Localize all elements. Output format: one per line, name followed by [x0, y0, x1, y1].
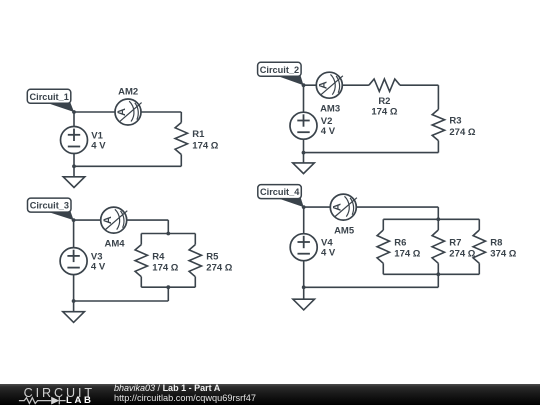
ammeter AM2 [115, 87, 142, 126]
resistor R1 174 ohm [175, 123, 219, 155]
wire down to parallel top bus circuit 3 [167, 220, 169, 233]
wire R7 bottom lead [437, 263, 439, 274]
node circuit 1 top junction [72, 110, 76, 114]
svg-text:LAB: LAB [66, 395, 94, 405]
svg-text:AM4: AM4 [104, 238, 125, 249]
wire bottom rail circuit 2 [304, 152, 439, 154]
svg-text:AM5: AM5 [334, 225, 355, 236]
node circuit 2 top junction [302, 83, 306, 87]
voltage source V2 4V [290, 112, 336, 139]
wire R7 top lead [437, 219, 439, 230]
voltage source V4 4V [290, 234, 336, 261]
svg-text:374 Ω: 374 Ω [490, 248, 516, 259]
wire V2 branch circuit 2 [303, 85, 305, 152]
wire bottom rail circuit 3 [74, 300, 169, 302]
wire R1 top lead [180, 112, 182, 123]
resistor R7 274 ohm [432, 230, 476, 263]
wire V3 branch circuit 3 [73, 220, 75, 301]
wire R4 bottom lead [140, 277, 142, 288]
svg-text:Circuit_2: Circuit_2 [260, 65, 299, 75]
node circuit 2 bottom junction [302, 151, 306, 155]
wire R8 bottom lead [478, 263, 480, 274]
wire ground stem circuit 4 [303, 287, 305, 299]
wire R6 bottom lead [382, 263, 384, 274]
svg-text:R5: R5 [206, 251, 219, 262]
resistor R4 174 ohm [135, 245, 179, 277]
wire top rail circuit 3 (node through AM4) [74, 219, 169, 221]
svg-text:274 Ω: 274 Ω [449, 127, 475, 138]
wire top rail circuit 4 (node through AM5) [304, 206, 439, 208]
ground circuit 4 [293, 299, 315, 310]
wire ground stem circuit 3 [73, 301, 75, 312]
resistor R8 374 ohm [473, 230, 517, 263]
node label Circuit_2 [258, 62, 304, 85]
CircuitLab logo [18, 384, 118, 405]
svg-text:R2: R2 [378, 96, 390, 107]
svg-text:274 Ω: 274 Ω [206, 262, 232, 273]
svg-text:R8: R8 [490, 237, 502, 248]
svg-text:A: A [102, 216, 114, 224]
svg-text:174 Ω: 174 Ω [371, 107, 397, 118]
wire down to parallel top bus circuit 4 [437, 207, 439, 219]
svg-text:Circuit_3: Circuit_3 [30, 201, 69, 211]
wire R3 top lead [437, 85, 439, 109]
wire parallel top bus circuit 3 [141, 233, 195, 235]
svg-text:A: A [116, 108, 128, 116]
ground circuit 3 [63, 312, 85, 323]
voltage source V3 4V [60, 248, 106, 275]
wire R5 bottom lead [194, 277, 196, 288]
svg-text:174 Ω: 174 Ω [152, 262, 178, 273]
svg-text:AM3: AM3 [320, 104, 340, 115]
ground circuit 1 [63, 177, 85, 188]
wire R4 top lead [140, 234, 142, 245]
resistor R5 274 ohm [189, 245, 233, 277]
wire R2 to corner circuit 2 [400, 84, 438, 86]
footer caption text [114, 383, 220, 393]
node label Circuit_4 [258, 185, 304, 208]
svg-text:AM2: AM2 [118, 87, 138, 98]
svg-text:Circuit_1: Circuit_1 [30, 92, 69, 102]
wire R6 top lead [382, 219, 384, 230]
resistor R2 174 ohm [369, 79, 400, 118]
wire top rail circuit 2 (node to R2) [304, 84, 369, 86]
svg-text:4 V: 4 V [91, 140, 106, 151]
logo diode triangle [51, 397, 59, 405]
wire bottom rail circuit 4 [304, 286, 439, 288]
node circuit 3 parallel bottom junction [166, 285, 170, 289]
svg-text:R3: R3 [449, 116, 461, 127]
ammeter AM3 [316, 72, 343, 114]
ammeter AM4 [101, 207, 128, 249]
wire down from bottom bus circuit 3 [167, 287, 169, 301]
svg-text:4 V: 4 V [91, 261, 106, 272]
svg-text:R4: R4 [152, 251, 165, 262]
resistor R3 274 ohm [432, 109, 476, 140]
wire ground stem circuit 1 [73, 166, 75, 177]
svg-text:174 Ω: 174 Ω [394, 248, 420, 259]
wire R8 top lead [478, 219, 480, 230]
wire parallel bottom bus circuit 3 [141, 286, 195, 288]
wire down from bottom bus circuit 4 [437, 274, 439, 287]
node circuit 3 top junction [72, 218, 76, 222]
resistor R6 174 ohm [377, 230, 421, 263]
svg-text:A: A [332, 203, 344, 211]
svg-text:174 Ω: 174 Ω [192, 140, 218, 151]
svg-text:A: A [318, 81, 330, 89]
wire top rail circuit 1 (V1+ to R1 top) [74, 111, 181, 113]
node circuit 4 bottom junction [302, 285, 306, 289]
svg-text:274 Ω: 274 Ω [449, 248, 475, 259]
wire R3 bottom lead [437, 141, 439, 153]
wire R5 top lead [194, 234, 196, 245]
svg-text:4 V: 4 V [321, 248, 336, 259]
svg-text:Circuit_4: Circuit_4 [260, 187, 300, 197]
node circuit 3 bottom junction [72, 299, 76, 303]
ammeter AM5 [330, 194, 357, 236]
logo resistor zigzag and diode glyph [19, 397, 66, 405]
footer attribution bar [0, 384, 540, 405]
svg-text:R6: R6 [394, 237, 406, 248]
wire V4 branch circuit 4 [303, 207, 305, 287]
svg-text:R1: R1 [192, 129, 205, 140]
node circuit 4 parallel bottom junction [436, 272, 440, 276]
wire ground stem circuit 2 [303, 153, 305, 163]
wire V1 branch circuit 1 [73, 112, 75, 166]
node circuit 4 top junction [302, 205, 306, 209]
svg-text:R7: R7 [449, 237, 461, 248]
node label Circuit_1 [27, 89, 74, 112]
node label Circuit_3 [28, 198, 74, 220]
wire R1 bottom lead [180, 155, 182, 167]
wire bottom rail circuit 1 [74, 165, 181, 167]
ground circuit 2 [293, 163, 315, 174]
node circuit 4 parallel top junction [436, 217, 440, 221]
wire parallel top bus circuit 4 [383, 218, 479, 220]
node circuit 1 bottom junction [72, 164, 76, 168]
svg-text:4 V: 4 V [321, 126, 336, 137]
voltage source V1 4V [61, 127, 107, 154]
node circuit 3 parallel top junction [166, 232, 170, 236]
wire parallel bottom bus circuit 4 [383, 273, 479, 275]
